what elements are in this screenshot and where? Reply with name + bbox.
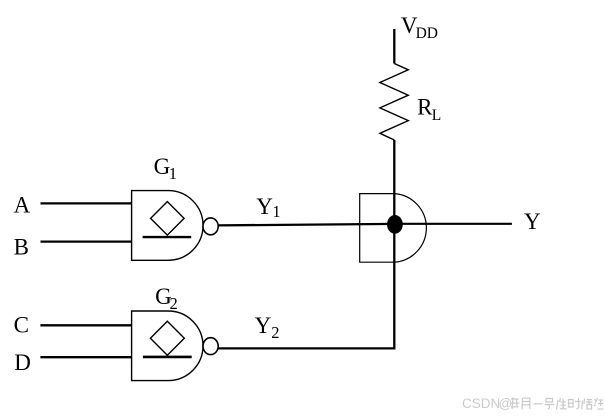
open-drain diamond G1 [151, 202, 185, 236]
wire input A [41, 202, 132, 204]
wire input C [40, 324, 131, 326]
svg-text:A: A [14, 193, 31, 218]
label VDD [401, 13, 438, 42]
svg-text:1: 1 [169, 164, 177, 183]
svg-text:2: 2 [170, 294, 178, 313]
wire VDD stub [393, 29, 395, 64]
svg-text:B: B [14, 235, 29, 260]
label RL [417, 94, 441, 124]
svg-text:Y: Y [255, 313, 272, 338]
wire input B [41, 240, 132, 242]
wire pull-up vertical [393, 140, 395, 348]
svg-text:R: R [417, 94, 433, 119]
svg-text:2: 2 [271, 323, 279, 342]
wired-AND symbol arc [395, 194, 427, 263]
svg-text:CSDN: CSDN [462, 396, 500, 411]
inversion bubble G2 [203, 338, 218, 355]
svg-text:Y: Y [256, 194, 273, 219]
svg-text:C: C [14, 313, 29, 338]
open-drain underline G2 [143, 356, 192, 359]
svg-text:D: D [14, 350, 31, 375]
open-drain underline G1 [143, 236, 192, 238]
wired-AND symbol rectangle [360, 194, 395, 263]
label Y2 [255, 313, 280, 342]
inversion bubble G1 [203, 218, 218, 235]
svg-text:G: G [154, 154, 171, 179]
wire Y2 [218, 347, 396, 349]
NAND gate G2 body [132, 311, 203, 381]
wire Y1 [218, 224, 395, 226]
label Y1 [256, 194, 280, 221]
label G1 [154, 154, 177, 183]
junction dot [387, 215, 403, 234]
wire output Y [395, 223, 512, 225]
open-drain diamond G2 [150, 321, 184, 355]
wire input D [40, 356, 131, 358]
svg-text:1: 1 [272, 202, 280, 221]
svg-text:Y: Y [524, 209, 541, 234]
svg-text:L: L [432, 107, 441, 124]
label G2 [155, 284, 178, 313]
resistor RL [380, 64, 408, 141]
NAND gate G1 body [132, 191, 203, 261]
svg-text:DD: DD [416, 25, 438, 42]
watermark CSDN [462, 396, 512, 411]
watermark hanzi glyph approximations [510, 398, 604, 410]
